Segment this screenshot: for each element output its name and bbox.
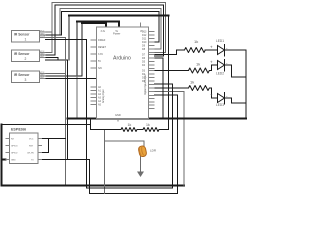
svg-text:Arduino: Arduino bbox=[113, 56, 131, 62]
wire sensor2 area to arduino 5V pin and down to cathode line bbox=[46, 60, 68, 160]
wire GND bottom line A bbox=[2, 185, 185, 187]
wire sensor2 pin3 jog to rail bbox=[46, 58, 58, 61]
svg-text:3: 3 bbox=[25, 78, 27, 82]
svg-text:VCC: VCC bbox=[40, 31, 45, 33]
svg-text:IR Sensor: IR Sensor bbox=[14, 52, 30, 56]
svg-text:5V: 5V bbox=[98, 60, 101, 63]
svg-text:LED1: LED1 bbox=[216, 39, 224, 43]
svg-text:GPIO2: GPIO2 bbox=[11, 153, 18, 155]
wire divider right to L5 bbox=[159, 129, 169, 131]
svg-text:1k: 1k bbox=[194, 39, 198, 44]
wire LDR to ground bbox=[140, 157, 142, 172]
wire divider row left bbox=[91, 129, 122, 131]
svg-text:LDR: LDR bbox=[150, 149, 157, 153]
svg-text:VCC: VCC bbox=[29, 139, 34, 141]
wire ESP CH_PD elbow bbox=[42, 139, 49, 153]
svg-text:GPIO0: GPIO0 bbox=[11, 146, 18, 148]
svg-text:RESET: RESET bbox=[98, 46, 107, 49]
wire loop L1 sensor1 pin1 / sensor2 pin1 to arduino right pin bbox=[46, 3, 166, 53]
resistor R4 divider left bbox=[121, 128, 137, 132]
resistor R5 divider right bbox=[143, 128, 159, 132]
wire sensor1 pin3 down gnd chain bbox=[46, 38, 66, 186]
wire loop L6 sensor3 pin1 to arduino 5V 3.3V top pins bbox=[77, 22, 119, 28]
wire loop L3 sensor1 pin2 to arduino right pin bbox=[60, 9, 161, 50]
svg-text:+: + bbox=[210, 93, 213, 98]
svg-text:OUT: OUT bbox=[40, 77, 45, 79]
wire loop L5 sensor2 rail down right side to divider row bbox=[69, 16, 169, 130]
left analog pins A0-A5 bbox=[91, 87, 97, 105]
wire ESP TX loop to arduino right pin bbox=[42, 95, 178, 193]
svg-text:1k: 1k bbox=[196, 62, 200, 67]
top Vin pin stub bbox=[140, 23, 142, 28]
svg-text:RST: RST bbox=[29, 146, 34, 148]
wire sensor1 pin3 second long leg down left rail bbox=[46, 40, 87, 189]
svg-text:IOREF: IOREF bbox=[98, 39, 106, 42]
wire loop L4 sensor1 pin2 to arduino right pin bbox=[46, 12, 160, 43]
wire R2 to LED2 riser bbox=[210, 65, 218, 71]
svg-text:GND: GND bbox=[11, 160, 16, 162]
svg-text:1: 1 bbox=[25, 38, 27, 42]
wire line B left rail to cathode line bbox=[87, 84, 173, 188]
wire R3 to LED3 drop bbox=[210, 88, 218, 98]
IR sensor 1 box bbox=[12, 31, 46, 43]
svg-text:CH_PD: CH_PD bbox=[27, 153, 35, 155]
wire LED2 to bus bbox=[225, 65, 247, 77]
LED D1 bbox=[210, 39, 228, 57]
svg-text:N/C: N/C bbox=[98, 67, 102, 70]
wire GND upper line bbox=[2, 79, 97, 130]
wire ESP GND left drop bbox=[2, 125, 6, 186]
wire arduino pin to gray right rail bbox=[155, 92, 185, 186]
Arduino U1 box bbox=[91, 23, 155, 122]
wire sensor3 pin1 join gnd chain bbox=[46, 73, 66, 75]
svg-text:1k: 1k bbox=[190, 80, 194, 85]
wire divider middle bbox=[137, 129, 143, 131]
svg-text:Digital Input/Output: Digital Input/Output bbox=[144, 74, 147, 95]
wire R1 to LED1 bbox=[205, 49, 218, 51]
svg-text:OUT: OUT bbox=[40, 36, 46, 39]
svg-text:IR Sensor: IR Sensor bbox=[14, 33, 30, 37]
wire LDR junction bbox=[105, 141, 145, 147]
svg-text:Analog Input: Analog Input bbox=[102, 89, 105, 103]
svg-text:LED2: LED2 bbox=[216, 72, 224, 76]
IR sensor 2 box bbox=[12, 50, 46, 62]
wire row3 pin to resistor R3 bbox=[155, 87, 189, 89]
left top pins bbox=[91, 40, 97, 68]
right digital pins bbox=[149, 32, 155, 109]
svg-text:+: + bbox=[210, 60, 213, 65]
LDR R6 bbox=[138, 145, 157, 157]
wire arduino pin D7 drop to cathode line bbox=[155, 58, 163, 119]
wire LED3 to bus bbox=[225, 98, 247, 103]
wire ESP VCC to gnd chain bbox=[42, 138, 66, 140]
wire sensor3 pin2 to L6 legs bbox=[46, 75, 83, 77]
svg-text:OUT: OUT bbox=[40, 56, 45, 58]
svg-text:3.3V: 3.3V bbox=[98, 53, 103, 56]
resistor R1 1k bbox=[185, 48, 206, 53]
svg-text:1k: 1k bbox=[146, 123, 150, 127]
svg-text:IR Sensor: IR Sensor bbox=[14, 73, 30, 77]
resistor R2 1k bbox=[189, 68, 210, 73]
svg-text:2: 2 bbox=[25, 57, 27, 61]
svg-text:ESP8266: ESP8266 bbox=[11, 128, 26, 132]
svg-text:GND: GND bbox=[115, 113, 121, 117]
wire row2 pin to resistor R2 bbox=[155, 70, 189, 72]
IR sensor 3 box bbox=[12, 71, 46, 83]
wire loop L2 sensor2 pin2 to arduino right pin bbox=[46, 5, 164, 56]
resistor R3 1k bbox=[189, 86, 210, 91]
wire LED cathode line across bbox=[68, 118, 247, 120]
wire rail below sensor3 pin2 down to cathode line bbox=[76, 76, 78, 119]
LED D2 bbox=[210, 59, 228, 76]
wire row1 pin to resistor R1 bbox=[155, 50, 185, 55]
ground symbol bbox=[137, 172, 144, 178]
svg-text:+: + bbox=[210, 45, 213, 50]
svg-text:1k: 1k bbox=[128, 123, 132, 127]
LED D3 bbox=[210, 92, 228, 107]
svg-text:LED3: LED3 bbox=[216, 103, 224, 107]
bottom GND pin bbox=[117, 119, 119, 122]
wire gnd branch down to line C bbox=[104, 130, 106, 194]
svg-text:3.3v: 3.3v bbox=[101, 30, 106, 33]
ESP8266 box bbox=[6, 128, 43, 164]
wire LED1 to bus bbox=[225, 50, 247, 119]
